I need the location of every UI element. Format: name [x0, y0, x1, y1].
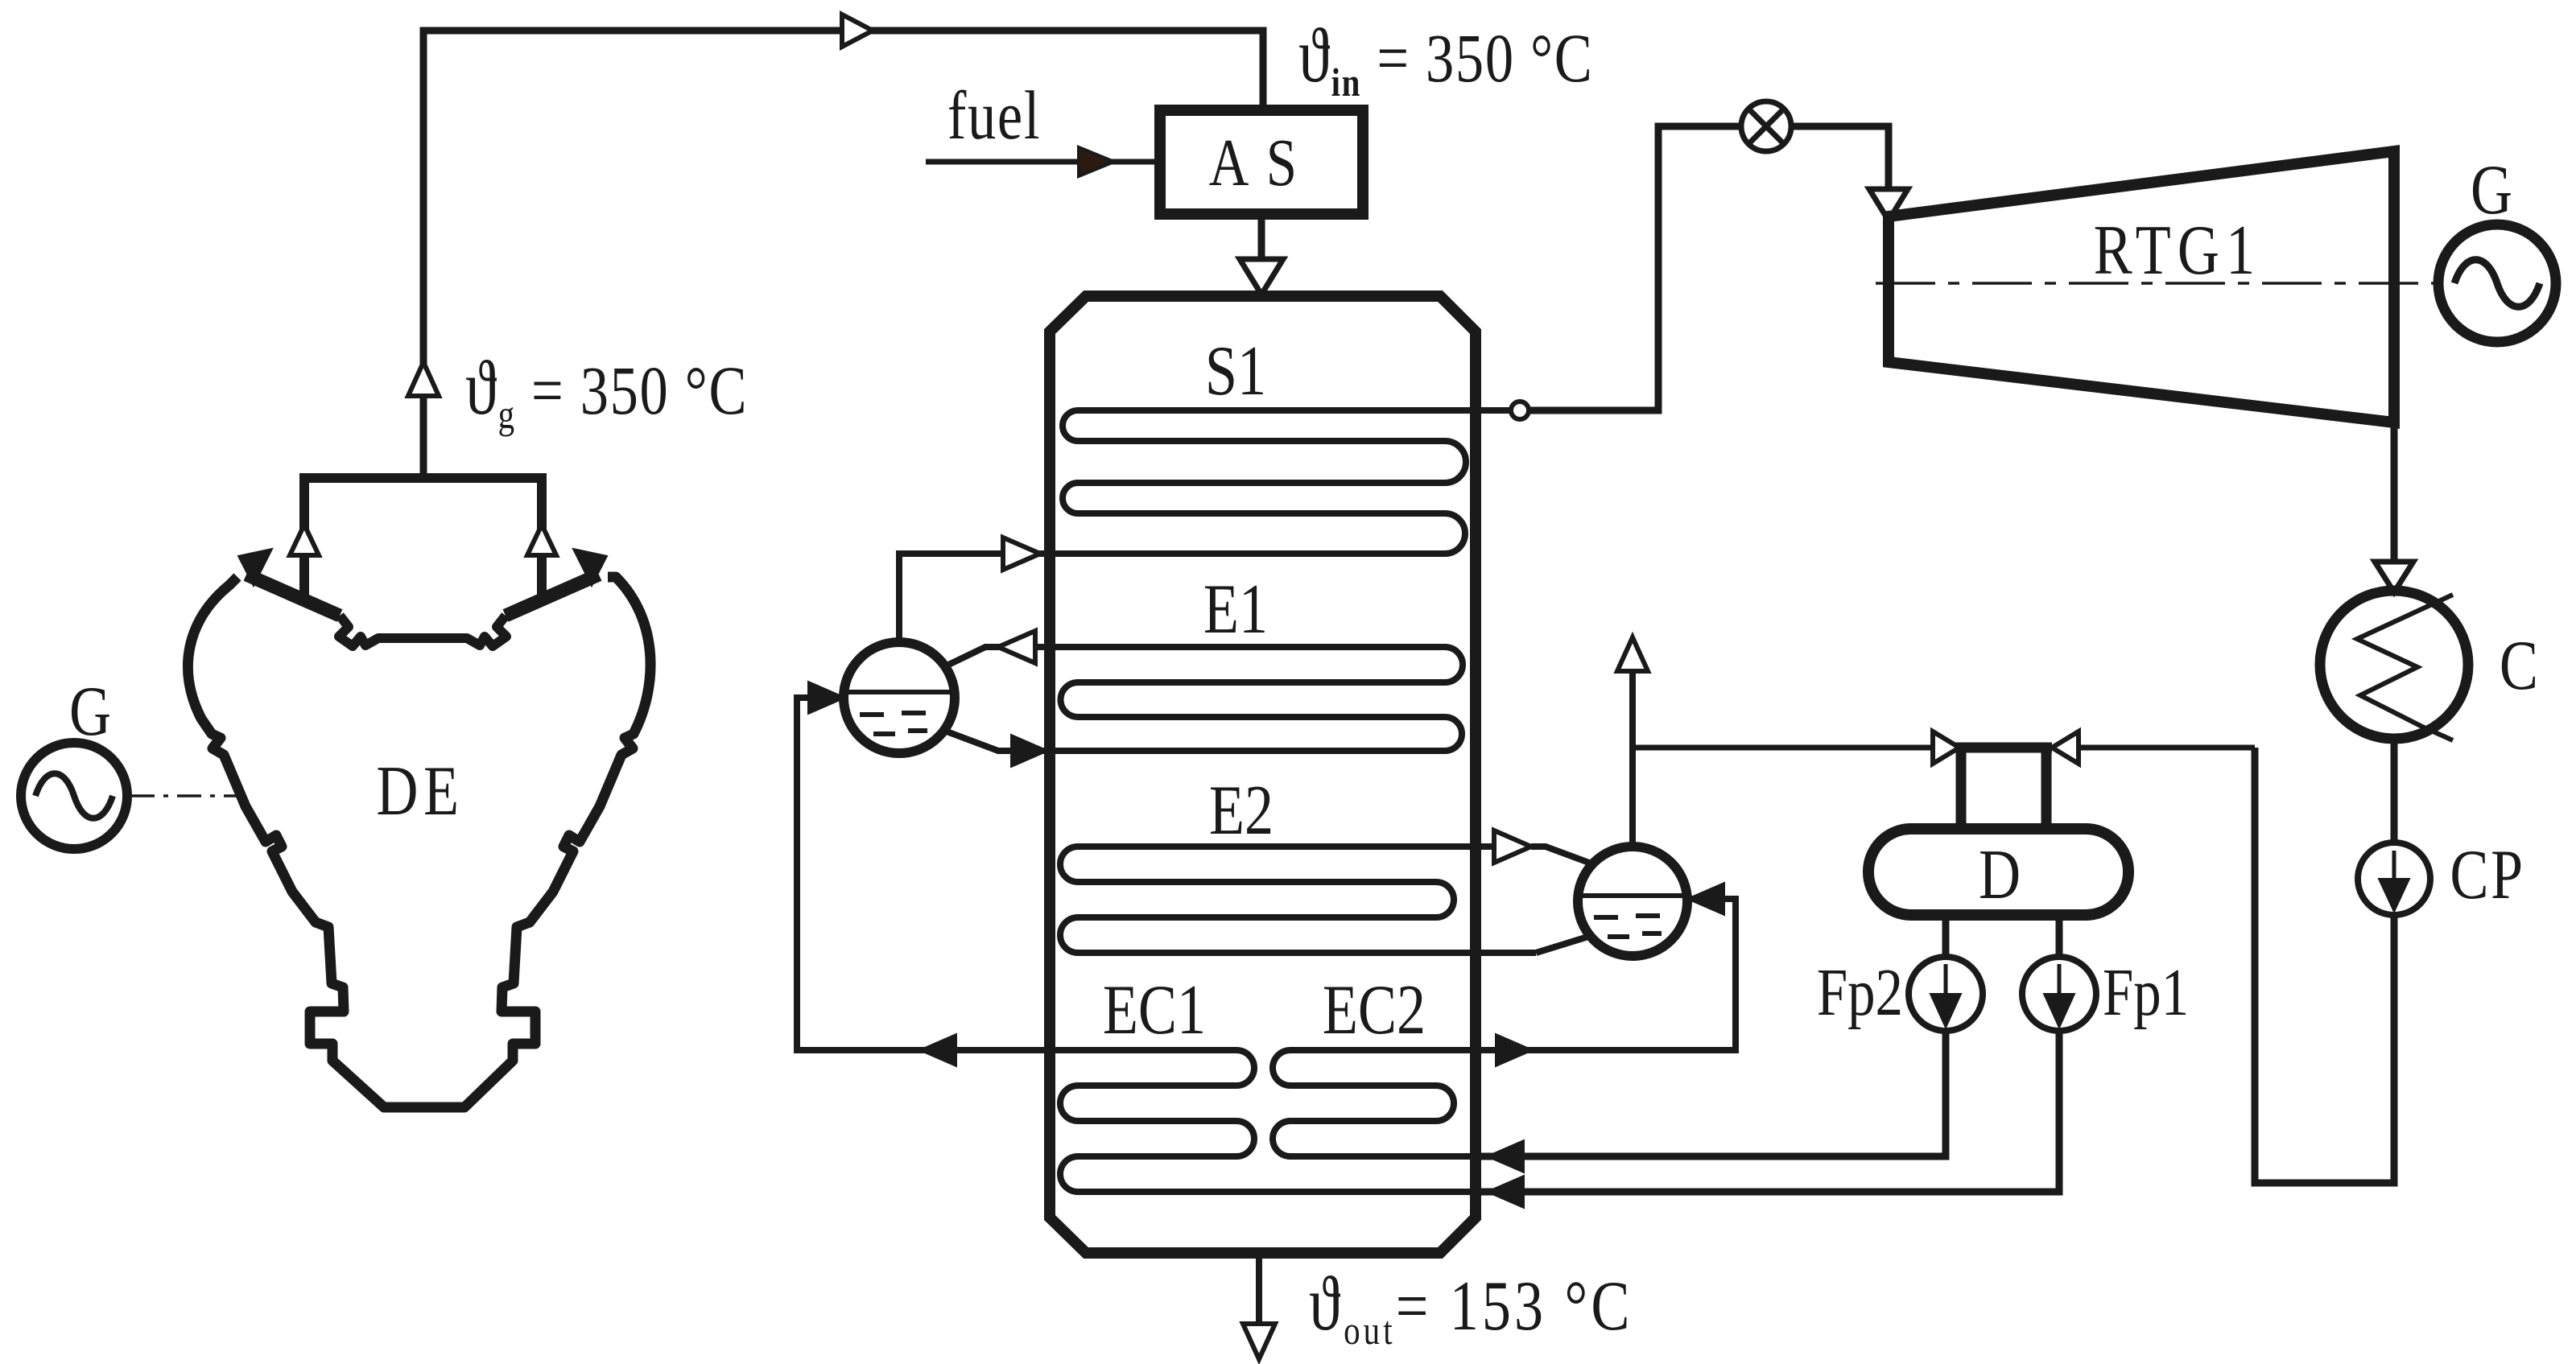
wire valve to turbine inlet	[1791, 126, 1889, 189]
svg-text:G: G	[2471, 150, 2512, 229]
wire top exhaust gas line from DE manifold to AS	[423, 31, 1263, 478]
filled tip on left engine horn	[238, 549, 272, 586]
svg-text:RTG1: RTG1	[2094, 211, 2262, 289]
svg-text:C: C	[2500, 626, 2538, 704]
condenser C circle	[2320, 591, 2468, 739]
dash-dot shaft DE to G	[130, 794, 240, 797]
filled arrow into column on downcomer	[1011, 735, 1048, 767]
svg-text:S1: S1	[1205, 332, 1266, 410]
wire drum1 downcomer to E1	[940, 729, 1050, 751]
engine top center collector contour	[339, 616, 506, 646]
open arrow turbine inlet	[1869, 189, 1908, 220]
feed pump Fp1	[2022, 957, 2096, 1031]
open arrow into condenser	[2375, 562, 2413, 592]
filled arrow into drum1	[808, 682, 845, 714]
open arrow up on left riser	[408, 362, 439, 396]
wire Fp1 to EC1 inlet	[1480, 1031, 2059, 1192]
svg-text:G: G	[69, 672, 111, 750]
wire Fp2 to EC2 inlet	[1480, 1031, 1946, 1156]
node on S1 outlet	[1511, 402, 1529, 419]
open arrow vent top	[1617, 637, 1648, 671]
HRSG boiler column octagon	[1050, 296, 1476, 1253]
svg-text:ϑin = 350 °C: ϑin = 350 °C	[1298, 13, 1593, 105]
filled arrow Fp1 into column	[1487, 1176, 1524, 1208]
wire EC2 outlet to drum2 right feed	[1480, 899, 1736, 1050]
economizer EC2 coil	[1273, 1050, 1480, 1156]
open arrow up on right manifold stub	[527, 525, 556, 555]
open valve triangle left pointing right	[1933, 731, 1959, 764]
open arrow on drum1 to S1 line	[1003, 538, 1040, 570]
wire E2 return diagonal from drum2	[1536, 936, 1591, 953]
svg-text:EC1: EC1	[1103, 970, 1206, 1049]
wire deaerator feed line valves	[1633, 745, 2255, 751]
steam drum 1	[844, 642, 955, 753]
svg-text:CP: CP	[2450, 835, 2524, 913]
evaporator E2 coil	[1060, 847, 1536, 953]
filled tip on right engine horn	[573, 549, 607, 586]
svg-text:AS: AS	[1209, 126, 1315, 200]
open valve triangle right pointing left	[2052, 731, 2079, 764]
afterburner AS box	[1160, 110, 1363, 214]
filled arrow into drum2	[1687, 883, 1724, 915]
sine wave inside left G	[35, 773, 113, 818]
open arrow on fuel line	[1079, 147, 1114, 176]
steam drum 2	[1578, 847, 1687, 956]
deaerator top connection box	[1955, 748, 2052, 830]
wire boiler flue outlet	[1256, 1253, 1262, 1324]
filled arrow EC2 outlet	[1496, 1034, 1533, 1066]
svg-text:D: D	[1979, 835, 2021, 913]
wire CP loop down left and up to deaerator line	[2255, 748, 2394, 1183]
svg-text:Fp2: Fp2	[1817, 955, 1903, 1030]
wire E1 steam to drum1: out left and diagonal	[942, 647, 1050, 668]
open arrow up on left manifold stub	[290, 525, 319, 555]
wire S1 outlet to valve	[1529, 126, 1741, 410]
open arrow into boiler top	[1240, 259, 1283, 295]
svg-text:DE: DE	[376, 752, 464, 830]
condenser zigzag	[2357, 595, 2453, 740]
evaporator E1 coil	[1050, 647, 1463, 751]
wire turbine exhaust down to condenser	[2391, 422, 2398, 563]
sine wave inside right G	[2454, 260, 2540, 307]
wire AS outlet down to boiler	[1258, 214, 1265, 259]
wire drum2 vent riser	[1629, 670, 1636, 850]
svg-text:EC2: EC2	[1323, 970, 1426, 1049]
svg-text:ϑg = 350 °C: ϑg = 350 °C	[465, 345, 748, 437]
steam turbine RTG1	[1889, 151, 2394, 422]
right engine exhaust horn	[506, 575, 599, 616]
wire E2 steam diagonal into drum2	[1531, 847, 1596, 865]
fuel line into AS	[926, 159, 1160, 165]
diesel engine DE body outline	[188, 575, 650, 1107]
left engine exhaust horn	[246, 575, 340, 616]
open arrow E2 steam to drum2	[1494, 830, 1531, 863]
open arrow flue outlet down	[1243, 1324, 1275, 1359]
svg-text:Fp1: Fp1	[2103, 955, 2189, 1030]
deaerator D vessel	[1868, 829, 2128, 915]
condensate pump CP	[2358, 843, 2430, 915]
turbine shaft dash-dot axis	[1876, 282, 2438, 285]
filled arrow EC1 outlet pointing left	[919, 1034, 956, 1066]
svg-text:E2: E2	[1209, 771, 1274, 849]
wire D to Fp1	[2056, 915, 2063, 958]
wire condenser to CP	[2391, 739, 2398, 843]
open arrow on top line	[842, 14, 873, 47]
svg-text:fuel: fuel	[947, 78, 1041, 155]
open arrow pointing left on E1 steam line	[998, 631, 1035, 663]
filled arrow Fp2 into column	[1487, 1140, 1524, 1172]
superheater S1 coil	[899, 410, 1520, 644]
steam control valve	[1741, 101, 1791, 151]
svg-text:ϑout= 153 °C: ϑout= 153 °C	[1309, 1261, 1633, 1353]
svg-text:E1: E1	[1203, 570, 1268, 648]
economizer EC1 coil	[1050, 1050, 1480, 1192]
wire D to Fp2	[1942, 915, 1950, 958]
wire EC1 outlet to drum1 feed	[797, 698, 1050, 1050]
feed pump Fp2	[1909, 957, 1983, 1031]
generator G left circle	[21, 743, 127, 849]
exhaust manifold box above DE	[304, 478, 542, 600]
generator G right circle	[2438, 225, 2556, 342]
